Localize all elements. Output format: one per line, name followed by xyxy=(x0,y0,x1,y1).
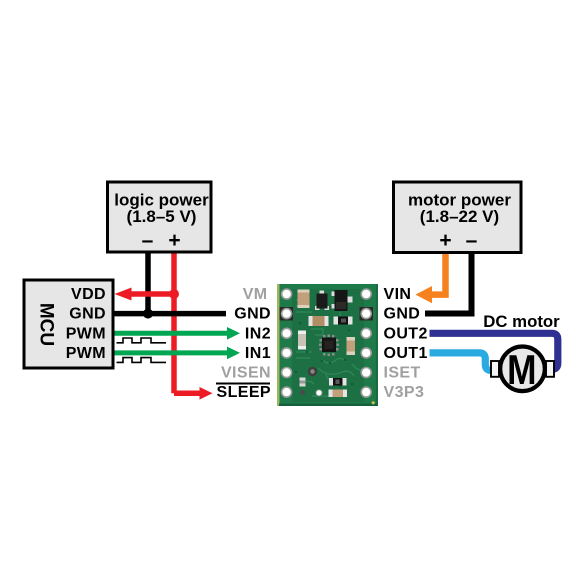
svg-text:(1.8–5 V): (1.8–5 V) xyxy=(127,207,197,226)
svg-text:–: – xyxy=(142,229,154,252)
svg-text:DC motor: DC motor xyxy=(483,312,560,331)
motor terminal tab right xyxy=(546,361,554,377)
svg-text:(1.8–22 V): (1.8–22 V) xyxy=(420,207,499,226)
capacitor small right of IC on PCB xyxy=(347,337,356,355)
svg-text:PWM: PWM xyxy=(66,325,106,342)
svg-text:+: + xyxy=(439,229,451,252)
driver pin label SLEEP with overline xyxy=(216,384,271,402)
wire red VDD branch with arrow into MCU xyxy=(115,288,175,301)
svg-text:–: – xyxy=(466,229,478,252)
svg-text:GND: GND xyxy=(234,306,271,323)
motor power supply box xyxy=(394,182,522,253)
wire red from logic power plus terminal down to SLEEP xyxy=(171,250,177,393)
through holes right column xyxy=(361,289,371,397)
DC motor body xyxy=(500,347,545,394)
svg-text:M: M xyxy=(507,347,536,394)
resistor tan bottom on PCB xyxy=(329,390,348,398)
wire green PWM to IN1 with arrow xyxy=(113,347,240,360)
via small bottom-left on PCB xyxy=(300,390,305,395)
logic power supply box xyxy=(108,182,212,252)
capacitor small left on PCB xyxy=(298,331,306,350)
svg-text:IN2: IN2 xyxy=(245,325,271,342)
svg-text:VDD: VDD xyxy=(71,286,106,303)
svg-text:ISET: ISET xyxy=(384,365,421,382)
wire black from motor power minus to driver GND xyxy=(425,250,472,314)
regulator SOT89 top-right on PCB xyxy=(332,290,353,311)
PWM waveform symbol 2 xyxy=(117,358,167,363)
wire dark blue OUT2 to motor right terminal xyxy=(430,333,558,369)
wire red into SLEEP with arrow xyxy=(174,387,213,400)
wire light blue OUT1 to motor left terminal xyxy=(430,353,495,371)
fiducial dot bottom-right on PCB xyxy=(372,401,375,404)
wire green PWM to IN2 with arrow xyxy=(113,327,240,340)
motor terminal tab left xyxy=(491,361,499,377)
wire black from logic power minus terminal to GND node xyxy=(145,250,151,314)
svg-text:+: + xyxy=(168,229,180,252)
node black junction at GND xyxy=(143,309,153,319)
MCU box xyxy=(24,280,113,368)
pad dark square around right GND hole xyxy=(360,307,374,321)
pad dark square around left GND hole xyxy=(280,307,294,321)
via large below IC on PCB xyxy=(308,367,318,377)
svg-text:PWM: PWM xyxy=(66,345,106,362)
driver board PCB xyxy=(277,284,378,406)
transistor SOT23 top-middle on PCB xyxy=(315,291,329,311)
svg-text:VIN: VIN xyxy=(384,286,412,303)
IC QFN center on PCB with pin stubs xyxy=(319,335,339,357)
via dots decorative xyxy=(295,306,354,388)
wire black GND bus from MCU to driver GND xyxy=(113,311,226,317)
svg-text:V3P3: V3P3 xyxy=(384,384,425,401)
svg-text:OUT1: OUT1 xyxy=(384,345,428,362)
through holes left column xyxy=(282,289,292,397)
capacitor tan mid-left on PCB xyxy=(309,316,329,326)
hole small bottom-center on PCB xyxy=(316,390,322,396)
svg-text:VM: VM xyxy=(243,286,268,303)
PWM waveform symbol 1 xyxy=(117,338,167,343)
svg-text:OUT2: OUT2 xyxy=(384,325,428,342)
svg-text:IN1: IN1 xyxy=(245,345,271,362)
resistor 10 mid-right on PCB xyxy=(334,317,353,325)
wire orange from motor power plus into VIN with arrow xyxy=(416,250,446,303)
svg-text:VISEN: VISEN xyxy=(221,365,271,382)
svg-text:MCU: MCU xyxy=(36,303,57,346)
capacitor tan top-left on PCB xyxy=(298,290,310,309)
trace pattern decorative xyxy=(296,300,366,396)
pad small bottom-left on PCB xyxy=(300,378,306,387)
diode bottom on PCB xyxy=(329,378,347,386)
svg-text:SLEEP: SLEEP xyxy=(217,384,271,401)
svg-text:GND: GND xyxy=(69,306,106,323)
svg-text:GND: GND xyxy=(384,306,421,323)
node red junction at VDD branch xyxy=(169,289,179,299)
